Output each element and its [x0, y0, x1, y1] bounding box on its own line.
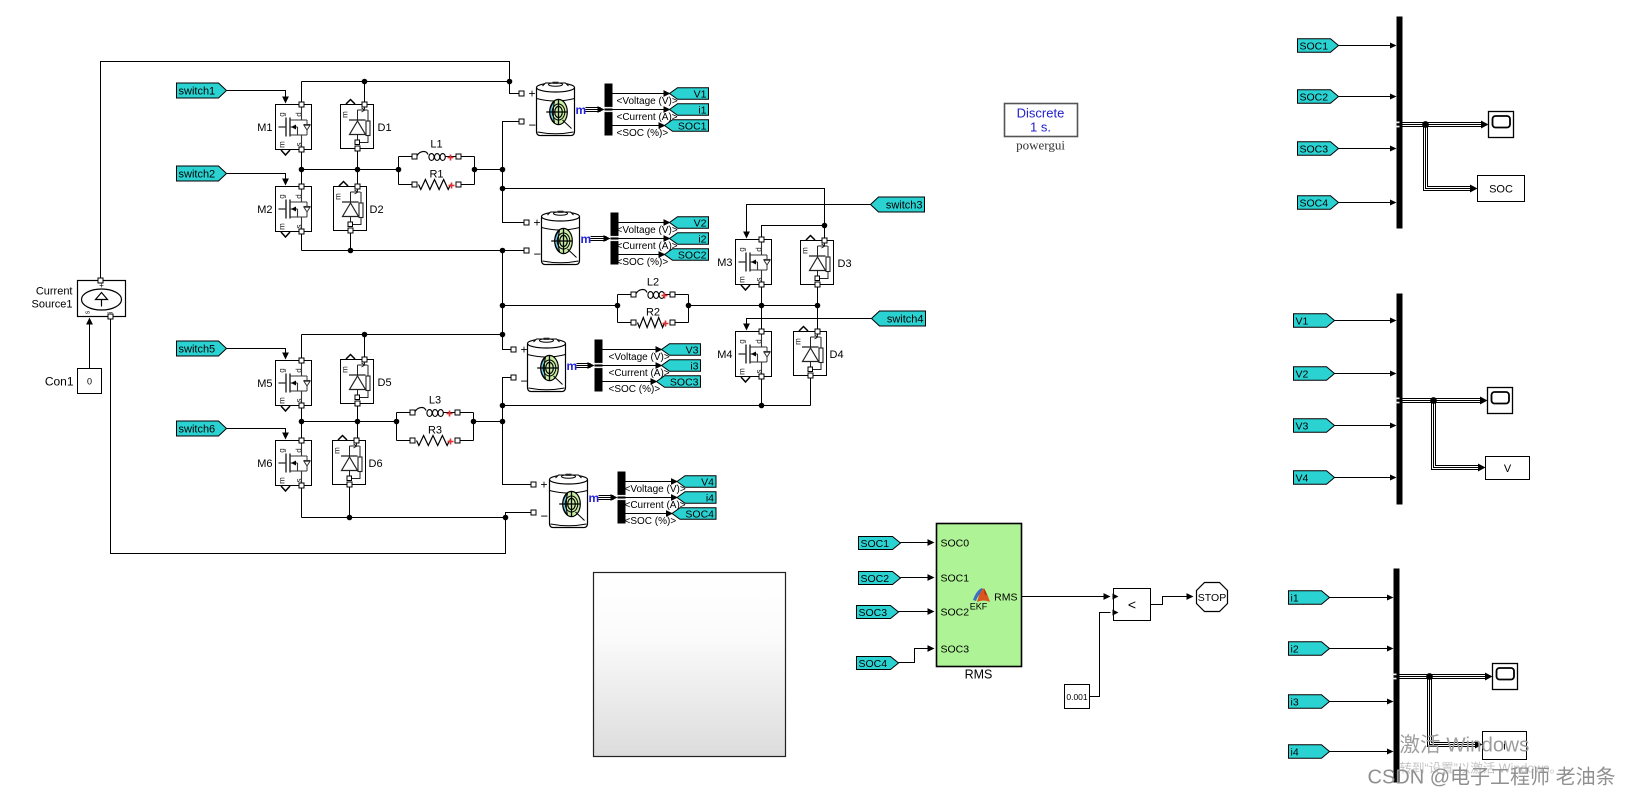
junction L3R3 right node	[471, 419, 477, 425]
from tag switch6	[177, 421, 227, 436]
svg-text:V3: V3	[1296, 420, 1309, 432]
wire L2R2 left vertical	[617, 295, 619, 323]
svg-text:Source1: Source1	[32, 299, 73, 311]
svg-text:switch4: switch4	[887, 313, 924, 325]
junction bottom rail 3 / battery B4 -	[503, 515, 509, 521]
svg-text:<Current (A)>: <Current (A)>	[609, 368, 670, 379]
wire L3R3 right node to rail	[474, 421, 503, 423]
svg-text:d: d	[295, 194, 304, 198]
svg-text:i3: i3	[690, 360, 698, 372]
svg-text:i2: i2	[698, 233, 706, 245]
from tag switch4	[872, 311, 926, 326]
svg-text:d: d	[755, 247, 764, 251]
junction bottom rail 1 / battery rail segment 2	[500, 248, 506, 254]
wire L1R1 left vertical	[398, 157, 400, 185]
svg-text:s: s	[755, 278, 764, 282]
junction D2 on bottom rail 1	[348, 248, 354, 254]
wire switch4 to M4 gate	[747, 319, 872, 328]
bus selector 4	[618, 472, 626, 524]
wire M1 drain up	[301, 82, 303, 105]
wire bus selector 3 out i3	[603, 365, 660, 367]
goto tag SOC2	[665, 249, 709, 261]
wire M4-D4 bottom rail	[503, 405, 811, 407]
wire battery rail segment 3 (B3- to B4+)	[503, 378, 532, 485]
wire SOC2 to mux SOC group	[1339, 96, 1394, 98]
from tag switch2	[177, 166, 227, 181]
wire rail to M3-D3 top	[503, 189, 825, 226]
svg-text:SOC2: SOC2	[941, 607, 970, 619]
mosfet M5	[276, 361, 312, 412]
from tag V3 (V group)	[1294, 419, 1335, 433]
wire bus selector 2 out V2	[619, 222, 668, 224]
svg-text:switch6: switch6	[179, 423, 216, 435]
wire i4 to mux i group	[1330, 751, 1391, 753]
svg-text:R3: R3	[428, 425, 442, 437]
goto tag SOC3	[657, 376, 701, 388]
wire D4 bottom down	[810, 376, 812, 406]
svg-text:s: s	[85, 310, 92, 314]
from tag switch1	[177, 83, 227, 98]
goto tag i4	[677, 492, 716, 504]
svg-text:V4: V4	[1296, 472, 1309, 484]
bus wire mux V group to scope	[1403, 398, 1483, 403]
wire SOC4 to mux SOC group	[1339, 202, 1394, 204]
svg-text:i4: i4	[1291, 746, 1299, 758]
svg-text:L2: L2	[647, 277, 659, 289]
svg-text:s: s	[295, 479, 304, 483]
goto tag i1	[670, 104, 709, 116]
wire SOC3 to EKF	[899, 611, 932, 613]
wire battery rail segment 2 (B2- to B3+)	[503, 251, 512, 350]
from tag SOC1 (SOC group)	[1298, 39, 1339, 53]
svg-text:m: m	[278, 397, 287, 404]
inductor L1	[399, 139, 475, 161]
wire mid rail 1 left	[302, 169, 399, 171]
wire V4 to mux V group	[1335, 477, 1394, 479]
resistor R1	[399, 169, 475, 190]
svg-text:<Current (A)>: <Current (A)>	[617, 112, 678, 123]
svg-text:d: d	[295, 368, 304, 372]
from tag V2 (V group)	[1294, 367, 1335, 381]
svg-text:d: d	[295, 112, 304, 116]
svg-text:SOC4: SOC4	[859, 658, 888, 670]
svg-text:0: 0	[87, 377, 92, 387]
wire V1 to mux V group	[1335, 320, 1394, 322]
svg-text:s: s	[295, 225, 304, 229]
port B4 +	[531, 482, 536, 487]
scope V group	[1488, 388, 1513, 414]
svg-text:g: g	[278, 368, 287, 372]
wire bus selector 4 out SOC4	[626, 513, 671, 515]
mosfet M3	[736, 240, 772, 291]
svg-text:M2: M2	[257, 204, 272, 216]
svg-text:0.001: 0.001	[1066, 692, 1088, 702]
svg-text:Con1: Con1	[45, 375, 74, 389]
svg-text:SOC2: SOC2	[678, 249, 707, 261]
junction M4 on bottom rail 2	[759, 403, 765, 409]
svg-text:+: +	[521, 343, 528, 357]
svg-text:i1: i1	[1291, 592, 1299, 604]
svg-text:V1: V1	[1296, 315, 1309, 327]
wire mid rail 3 left	[302, 421, 397, 423]
junction L3R3 left node	[394, 419, 400, 425]
bus wire mux i group to workspace	[1430, 677, 1478, 745]
to workspace i	[1483, 732, 1527, 760]
svg-text:SOC2: SOC2	[1300, 91, 1329, 103]
svg-text:m: m	[278, 141, 287, 148]
svg-text:L3: L3	[429, 395, 441, 407]
svg-text:s: s	[755, 370, 764, 374]
port B4 -	[531, 510, 536, 515]
from tag i4 (i group)	[1289, 745, 1330, 759]
mosfet M1	[276, 105, 312, 156]
wire SOC1 to EKF	[901, 542, 932, 544]
matlab function block RMS (EKF)	[937, 524, 1022, 667]
wire 0.001 to relational	[1090, 613, 1111, 697]
junction M3/M4 midpoint	[759, 303, 765, 309]
port B3 +	[511, 347, 516, 352]
svg-text:+: +	[534, 216, 541, 230]
wire D6 bottom down	[349, 485, 351, 518]
from tag SOC2 (SOC group)	[1298, 90, 1339, 104]
wire SOC1 to mux SOC group	[1339, 45, 1394, 47]
svg-text:M3: M3	[717, 257, 732, 269]
powergui block	[1005, 104, 1078, 137]
wire RMS to relational operator	[1022, 596, 1108, 598]
current source Current Source1	[78, 281, 126, 317]
svg-text:RMS: RMS	[994, 592, 1017, 604]
junction D1/D2 midpoint	[355, 167, 361, 173]
wire M5 source to M6 drain	[301, 406, 303, 441]
bus selector 1	[605, 84, 613, 136]
svg-text:<Voltage (V)>: <Voltage (V)>	[617, 96, 678, 107]
svg-text:D6: D6	[369, 458, 383, 470]
wire bus selector 4 out V4	[626, 481, 676, 483]
wire D3 top stub	[824, 226, 826, 241]
bus wire mux SOC group to workspace	[1426, 125, 1473, 189]
diode D5	[341, 355, 374, 404]
wire D3 bottom to D4 top	[817, 285, 819, 332]
wire L2R2 right vertical	[688, 295, 690, 323]
svg-text:d: d	[755, 339, 764, 343]
junction D5 on top rail 3	[362, 332, 368, 338]
wire relational to STOP	[1151, 597, 1191, 605]
svg-text:D4: D4	[830, 349, 844, 361]
wire L3R3 left vertical	[396, 413, 398, 441]
junction D6 on bottom rail 3	[347, 515, 353, 521]
wire D1 bottom to D2 top	[357, 149, 359, 187]
svg-text:<SOC (%)>: <SOC (%)>	[625, 516, 677, 527]
svg-text:SOC3: SOC3	[1300, 143, 1329, 155]
svg-text:<Voltage (V)>: <Voltage (V)>	[609, 352, 670, 363]
matlab logo icon	[973, 588, 990, 602]
svg-text:STOP: STOP	[1198, 592, 1226, 604]
goto tag SOC1	[665, 120, 709, 132]
svg-text:SOC1: SOC1	[1300, 40, 1329, 52]
constant Con1	[78, 369, 102, 394]
inductor L2	[618, 277, 689, 299]
goto tag V3	[662, 344, 701, 356]
svg-text:switch3: switch3	[886, 199, 923, 211]
diode D3	[801, 236, 834, 285]
wire battery B1 - to battery B2 + rail	[503, 122, 525, 223]
from tag SOC4 (SOC group)	[1298, 196, 1339, 210]
wire L2R2 right node to M3/M4 midpoint	[689, 305, 818, 307]
svg-text:s: s	[295, 143, 304, 147]
svg-text:d: d	[295, 448, 304, 452]
svg-text:m: m	[589, 491, 600, 505]
svg-text:<Current (A)>: <Current (A)>	[617, 241, 678, 252]
wire bus selector 2 out SOC2	[619, 254, 663, 256]
scope i group	[1493, 664, 1518, 690]
svg-text:+: +	[529, 87, 536, 101]
svg-text:SOC3: SOC3	[670, 376, 699, 388]
svg-text:switch1: switch1	[179, 85, 216, 97]
wire rail to L2R2 left node	[503, 305, 618, 307]
svg-text:EKF: EKF	[970, 602, 988, 612]
from tag i1 (i group)	[1289, 591, 1330, 605]
wire i2 to mux i group	[1330, 648, 1391, 650]
svg-text:M5: M5	[257, 378, 272, 390]
junction L1R1 right node	[472, 167, 478, 173]
wire M3 source to M4 drain	[761, 285, 763, 332]
svg-text:M6: M6	[257, 458, 272, 470]
wire V2 to mux V group	[1335, 373, 1394, 375]
goto tag i3	[662, 360, 701, 372]
svg-text:SOC2: SOC2	[861, 573, 890, 585]
svg-text:V2: V2	[1296, 368, 1309, 380]
junction bus V group	[1430, 397, 1437, 404]
wire bus selector 1 out i1	[613, 109, 668, 111]
svg-text:SOC3: SOC3	[859, 607, 888, 619]
junction bus i group	[1426, 673, 1433, 680]
wire bus selector 1 out V1	[613, 93, 668, 95]
junction L2R2 left node	[615, 303, 621, 309]
svg-text:<SOC (%)>: <SOC (%)>	[617, 257, 669, 268]
wire D1 top up	[364, 82, 366, 105]
svg-text:<: <	[1128, 597, 1136, 613]
diode D4	[794, 327, 827, 376]
bus selector 3	[595, 340, 603, 392]
port B2 +	[524, 220, 529, 225]
svg-text:powergui: powergui	[1016, 138, 1065, 153]
svg-text:R2: R2	[646, 307, 660, 319]
svg-text:SOC4: SOC4	[1300, 197, 1329, 209]
junction L2R2 right node	[686, 303, 692, 309]
svg-text:m: m	[567, 359, 578, 373]
battery B2	[542, 211, 580, 265]
junction M5/M6 midpoint	[299, 419, 305, 425]
wire D5 top up	[364, 335, 366, 360]
junction bus SOC group	[1422, 121, 1429, 128]
from tag i2 (i group)	[1289, 642, 1330, 656]
svg-text:D3: D3	[838, 258, 852, 270]
from tag SOC3 (EKF)	[857, 606, 899, 619]
svg-text:SOC: SOC	[1489, 184, 1513, 196]
junction D5/D6 midpoint	[355, 419, 361, 425]
wire switch1 to M1 gate	[225, 91, 286, 101]
svg-text:D1: D1	[378, 122, 392, 134]
svg-text:SOC1: SOC1	[861, 538, 890, 550]
svg-text:m: m	[581, 232, 592, 246]
svg-text:SOC0: SOC0	[941, 538, 970, 550]
svg-text:g: g	[278, 194, 287, 198]
svg-text:m: m	[738, 276, 747, 283]
svg-text:i1: i1	[698, 104, 706, 116]
svg-text:Current: Current	[36, 286, 73, 298]
diode D2	[334, 182, 367, 231]
wire bus selector 3 out SOC3	[603, 381, 655, 383]
svg-text:g: g	[278, 112, 287, 116]
junction top rail / M1-D1 rail	[507, 79, 513, 85]
wire switch3 to M3 gate	[747, 205, 871, 236]
svg-text:SOC3: SOC3	[941, 644, 970, 656]
wire top rail from current source to battery B1 +	[101, 62, 520, 278]
wire battery B4 - to rail	[506, 513, 532, 518]
goto tag SOC4	[672, 508, 716, 520]
inductor L3	[397, 395, 474, 417]
wire SOC3 to mux SOC group	[1339, 148, 1394, 150]
port B1 -	[519, 119, 524, 124]
mosfet M2	[276, 187, 312, 238]
from tag i3 (i group)	[1289, 695, 1330, 709]
wire switch5 to M5 gate	[225, 349, 286, 357]
stop block STOP	[1197, 583, 1228, 612]
wire M5 drain up	[301, 335, 303, 361]
from tag SOC2 (EKF)	[859, 572, 901, 585]
svg-text:M4: M4	[717, 349, 732, 361]
wire bus selector 1 out SOC1	[613, 125, 663, 127]
svg-text:i4: i4	[706, 492, 714, 504]
svg-text:m: m	[341, 111, 350, 118]
svg-text:i2: i2	[1291, 643, 1299, 655]
wire i3 to mux i group	[1330, 701, 1391, 703]
wire D5 bottom to D6 top	[357, 404, 359, 441]
from tag SOC3 (SOC group)	[1298, 142, 1339, 156]
svg-text:Discrete: Discrete	[1017, 106, 1065, 121]
wire L1R1 right vertical	[474, 157, 476, 185]
svg-text:<Current (A)>: <Current (A)>	[625, 500, 686, 511]
constant 0.001	[1065, 685, 1090, 709]
bus wire mux V group to workspace	[1434, 401, 1481, 468]
junction bottom rail 2 on battery rail	[500, 403, 506, 409]
wire M4 source down	[761, 377, 763, 406]
wire switch2 to M2 gate	[225, 174, 286, 183]
wire M5-D5 top rail	[302, 334, 503, 336]
svg-text:<SOC (%)>: <SOC (%)>	[609, 384, 661, 395]
svg-text:−: −	[521, 374, 529, 389]
mosfet M6	[276, 441, 312, 492]
svg-text:1 s.: 1 s.	[1030, 120, 1051, 135]
goto tag V2	[670, 217, 709, 229]
svg-text:CSDN @电子工程师 老油条: CSDN @电子工程师 老油条	[1368, 766, 1616, 789]
wire M2 source down	[301, 232, 303, 251]
mosfet M4	[736, 332, 772, 383]
junction M5-D5 top rail on battery rail	[500, 332, 506, 338]
junction rail to M3 bridge	[500, 186, 506, 192]
bus selector 2	[611, 213, 619, 265]
svg-text:V4: V4	[701, 476, 714, 488]
svg-text:V: V	[1504, 463, 1512, 475]
junction D3 top	[822, 223, 828, 229]
wire SOC4 to EKF	[899, 649, 932, 663]
svg-text:V2: V2	[694, 217, 707, 229]
goto tag V1	[670, 88, 709, 100]
svg-text:+: +	[541, 478, 548, 492]
svg-text:V1: V1	[694, 88, 707, 100]
to workspace V	[1486, 457, 1530, 480]
from tag SOC4 (EKF)	[857, 657, 899, 670]
mux SOC group	[1397, 17, 1403, 229]
svg-text:D5: D5	[378, 377, 392, 389]
to workspace SOC	[1478, 176, 1525, 202]
svg-text:L1: L1	[430, 139, 442, 151]
resistor R2	[618, 307, 689, 328]
svg-text:<Voltage (V)>: <Voltage (V)>	[625, 484, 686, 495]
svg-text:switch2: switch2	[179, 168, 216, 180]
goto tag i2	[670, 233, 709, 245]
svg-text:g: g	[278, 448, 287, 452]
svg-text:SOC1: SOC1	[678, 120, 707, 132]
svg-text:m: m	[341, 366, 350, 373]
svg-text:m: m	[278, 477, 287, 484]
battery B1	[537, 82, 575, 136]
svg-text:m: m	[333, 447, 342, 454]
svg-text:SOC1: SOC1	[941, 573, 970, 585]
wire bottom return rail to current source	[111, 319, 506, 554]
svg-text:switch5: switch5	[179, 343, 216, 355]
svg-text:−: −	[534, 247, 542, 262]
from tag V4 (V group)	[1294, 471, 1335, 485]
wire bus selector 3 out V3	[603, 349, 660, 351]
wire M6 source down	[301, 486, 303, 518]
junction D3/D4 midpoint	[815, 303, 821, 309]
battery B4	[550, 474, 588, 528]
wire V3 to mux V group	[1335, 425, 1394, 427]
wire M1 source to M2 drain	[301, 150, 303, 187]
wire bus selector 2 out i2	[619, 238, 668, 240]
junction L2R2 left rail	[500, 303, 506, 309]
wire M1-D1 top rail	[302, 81, 510, 83]
port B1 +	[519, 91, 524, 96]
from tag SOC1 (EKF)	[859, 537, 901, 550]
wire bus selector 4 out i4	[626, 497, 676, 499]
wire L3R3 right vertical	[473, 413, 475, 441]
diode D1	[341, 100, 374, 149]
from tag switch3	[871, 197, 925, 212]
svg-text:m: m	[334, 193, 343, 200]
battery B3	[528, 338, 566, 392]
wire Con1 to Current Source1	[89, 321, 91, 369]
junction L1R1 left node	[396, 167, 402, 173]
svg-text:i3: i3	[1291, 696, 1299, 708]
bus wire mux SOC group to scope	[1403, 122, 1484, 127]
svg-text:<Voltage (V)>: <Voltage (V)>	[617, 225, 678, 236]
wire M6-D6 bottom rail	[302, 517, 506, 519]
junction D1 on top rail	[362, 79, 368, 85]
svg-text:<SOC (%)>: <SOC (%)>	[617, 128, 669, 139]
wire i1 to mux i group	[1330, 597, 1391, 599]
scope SOC group	[1489, 112, 1514, 138]
svg-text:m: m	[278, 223, 287, 230]
junction M1/M2 midpoint	[299, 167, 305, 173]
mux V group	[1397, 294, 1403, 505]
svg-text:g: g	[738, 247, 747, 251]
from tag V1 (V group)	[1294, 314, 1335, 328]
wire SOC2 to EKF	[901, 577, 932, 579]
goto tag V4	[677, 476, 716, 488]
junction L3R3 right rail	[500, 419, 506, 425]
